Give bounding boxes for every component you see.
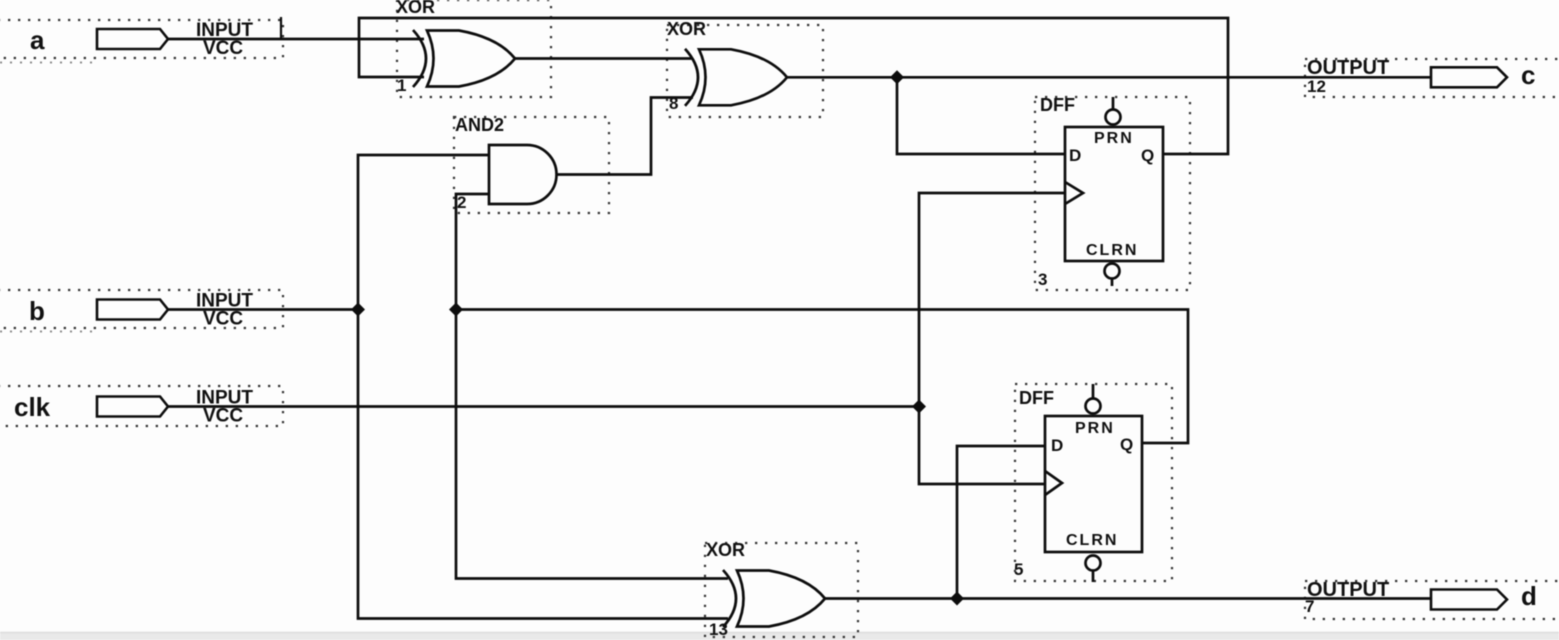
svg-text:VCC: VCC [203, 38, 243, 59]
svg-text:AND2: AND2 [455, 115, 504, 135]
svg-text:XOR: XOR [706, 540, 745, 560]
svg-text:D: D [1069, 146, 1081, 165]
svg-text:3: 3 [1038, 270, 1047, 289]
svg-text:b: b [29, 296, 45, 326]
svg-text:VCC: VCC [203, 406, 243, 427]
svg-text:PRN: PRN [1094, 130, 1134, 147]
svg-text:OUTPUT: OUTPUT [1307, 57, 1389, 79]
svg-text:c: c [1521, 60, 1535, 90]
svg-text:D: D [1051, 436, 1063, 455]
svg-text:7: 7 [1305, 597, 1314, 616]
svg-text:13: 13 [709, 620, 728, 639]
svg-text:Q: Q [1141, 146, 1154, 165]
svg-text:XOR: XOR [667, 19, 706, 39]
svg-text:PRN: PRN [1075, 420, 1115, 437]
svg-text:DFF: DFF [1019, 388, 1054, 408]
svg-text:d: d [1521, 581, 1537, 611]
svg-text:5: 5 [1014, 560, 1023, 579]
svg-text:a: a [30, 25, 45, 55]
svg-text:8: 8 [669, 94, 678, 113]
svg-text:DFF: DFF [1040, 95, 1075, 115]
svg-text:2: 2 [457, 193, 466, 212]
svg-text:12: 12 [1307, 77, 1326, 96]
svg-text:CLRN: CLRN [1066, 532, 1118, 549]
svg-text:OUTPUT: OUTPUT [1307, 579, 1389, 601]
svg-text:Q: Q [1120, 435, 1133, 454]
svg-text:clk: clk [14, 392, 51, 422]
svg-text:XOR: XOR [396, 0, 435, 17]
svg-text:VCC: VCC [203, 309, 243, 330]
svg-text:1: 1 [397, 76, 406, 95]
svg-text:CLRN: CLRN [1086, 242, 1138, 259]
